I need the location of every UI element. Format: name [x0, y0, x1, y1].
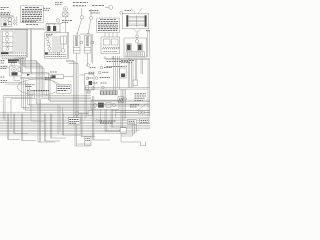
strip circle 2 — [112, 103, 115, 106]
switch circle c — [6, 43, 9, 46]
power window master box — [124, 38, 147, 57]
lock actuator box — [84, 73, 94, 90]
pointer line — [53, 81, 58, 85]
wire feed double line left — [0, 15, 14, 16]
wire from pump down — [14, 76, 20, 81]
wire pair right of M1 — [30, 29, 31, 74]
switch circle M2-a — [46, 37, 49, 40]
label near ellipse — [45, 78, 53, 80]
fuse out wire — [63, 76, 73, 78]
buzzer circle — [135, 40, 138, 43]
defogger pointer arrows — [131, 8, 142, 13]
wires from lock actuator down — [85, 90, 87, 118]
splice dark block 1 — [47, 26, 50, 31]
connector circle pair right — [138, 111, 141, 114]
right edge wire pair upper — [148, 30, 150, 57]
left drop stubs from ellipse left — [28, 91, 47, 121]
terminal rows M1 — [2, 53, 27, 59]
wires in M2 — [53, 36, 64, 52]
pump hatch — [12, 72, 18, 75]
junction circle bottom right — [120, 129, 123, 132]
defogger label — [125, 10, 132, 12]
bus double line across top of modules — [1, 28, 45, 29]
bottom right box fragment — [85, 137, 92, 146]
wires from note box2 to relay assy — [105, 33, 117, 37]
grid lines — [128, 16, 144, 25]
pump motor circle — [12, 67, 17, 72]
strip circle 1 — [93, 103, 96, 106]
dark label bar wiper — [8, 59, 19, 61]
wires inside M1 — [15, 29, 25, 52]
circuit breaker circle — [109, 6, 113, 10]
text in ellipse — [26, 85, 36, 87]
ignition switch box — [63, 12, 68, 17]
wiper switch strip — [91, 101, 119, 110]
breaker small box right — [118, 96, 124, 102]
label in M2 — [46, 34, 53, 36]
verticals right — [121, 89, 126, 142]
drops from ellipse continuing down — [37, 91, 151, 142]
splice dark block 2 — [53, 26, 56, 31]
connector circle m5 — [102, 86, 105, 89]
small circle M2 bottom — [57, 53, 59, 55]
right side labels upper — [121, 61, 134, 67]
switch circle d — [6, 47, 9, 50]
right sparse horizontals — [112, 111, 150, 113]
long horizontals right-mid — [85, 88, 150, 90]
arrow to door switch 1 — [77, 19, 82, 35]
right text block lower — [130, 94, 146, 107]
relay 1 — [104, 39, 111, 45]
bottom label box center — [68, 118, 80, 124]
verticals from wire pair — [132, 59, 143, 87]
right-mid verticals — [114, 56, 120, 91]
key cylinder circle — [63, 7, 67, 11]
connector circles bottom — [96, 120, 99, 123]
window motor 1 — [126, 44, 131, 51]
wire pair down-left of note box2 — [91, 34, 93, 64]
connector circle m4 — [92, 87, 95, 90]
label above note box2 — [89, 6, 104, 13]
resistor R2 vertical zigzag — [15, 19, 17, 26]
vertical crossings mid — [31, 114, 52, 141]
horizontal bus band 1 — [0, 113, 150, 119]
grid bus bar left — [126, 15, 128, 26]
gauge box G1 — [1, 17, 11, 26]
connector tag circle S2 — [90, 16, 93, 19]
connector circle below SW2 — [87, 64, 90, 67]
left ellipse verticals — [22, 77, 30, 110]
arrow to door switch 2 — [88, 20, 91, 35]
door lock switch right — [120, 68, 126, 78]
wire from ignition — [64, 17, 66, 33]
labels right of note box1 — [43, 8, 50, 10]
label above key cylinder — [55, 3, 63, 5]
tag leader wires — [82, 9, 91, 17]
wires left entering ellipse — [5, 83, 26, 85]
connector dots in ellipse — [27, 90, 49, 91]
relay pin circles — [104, 57, 106, 59]
label text top-left — [1, 8, 11, 15]
right verticals — [128, 58, 130, 88]
fuse box small 2 — [140, 119, 149, 124]
far-left verticals — [3, 96, 11, 129]
wire stub — [80, 74, 85, 76]
door jamb switch SW2 — [84, 36, 91, 53]
second bundle — [21, 57, 51, 91]
dark pin band — [101, 91, 118, 95]
wiper module M2 enclosure — [45, 33, 69, 59]
connector tag circle S1 — [80, 16, 83, 19]
right edge wire pair lower — [148, 60, 149, 117]
terminal label dark M1 — [1, 52, 9, 54]
corners bottom left — [8, 133, 36, 140]
small box bottom right — [120, 128, 126, 134]
bottom text right-mid — [100, 121, 116, 123]
breaker circle — [124, 98, 127, 101]
splice box row — [46, 24, 60, 32]
verticals right-center — [93, 96, 116, 140]
motor circle M2 — [61, 49, 65, 53]
connector circle left — [11, 63, 14, 66]
wires cluster2 to right — [66, 60, 78, 63]
wire stubs above resistors — [14, 16, 16, 18]
grid bus bar right — [145, 15, 147, 26]
sub box M2 — [61, 36, 67, 44]
left labels near pump — [1, 66, 8, 82]
wires below switches — [77, 53, 88, 66]
right bundle verticals — [74, 60, 79, 146]
switch circle M2-c — [48, 47, 51, 50]
switch circle M2-b — [47, 42, 50, 45]
fuse label — [50, 71, 57, 73]
contact rects G1 — [8, 18, 11, 21]
actuator bar dark — [89, 81, 92, 85]
label top-center — [73, 3, 88, 6]
enclosure inner edge — [26, 29, 28, 57]
relay 2 — [112, 39, 119, 45]
switch circle a — [5, 32, 8, 35]
window motor 2 — [137, 44, 142, 51]
ground V under grid — [133, 29, 141, 35]
door jamb switch SW1 — [73, 36, 80, 53]
resistor R1 vertical zigzag — [13, 19, 15, 26]
sub-box dividers — [3, 37, 14, 47]
pointer arrow right — [137, 104, 146, 111]
actuator circle — [86, 77, 89, 80]
steering column ellipse — [18, 79, 61, 95]
long wire pair under master box — [106, 58, 151, 59]
corner bundle right of ellipse turning right — [41, 91, 150, 102]
junction circle — [136, 35, 139, 38]
small actuator box right — [133, 80, 138, 86]
washer pump module — [10, 66, 22, 76]
note box 1 — [21, 6, 44, 23]
ground symbol — [87, 90, 90, 93]
rear window defogger grid — [123, 13, 149, 29]
left fan corners — [22, 105, 151, 111]
ignition label box — [57, 85, 72, 94]
right bottom verticals — [121, 124, 137, 136]
connector circle m3 — [95, 77, 98, 80]
label right of splice — [62, 21, 72, 23]
strip dark block — [98, 103, 104, 108]
gauge circle — [3, 18, 7, 22]
connector circle grid — [120, 11, 123, 14]
circle bottom-center — [75, 112, 79, 116]
label strip — [126, 52, 145, 57]
relay label row — [104, 50, 118, 52]
instrument module M1 enclosure — [1, 29, 28, 57]
contact hatch row — [103, 47, 120, 49]
dark element G1 — [3, 23, 6, 26]
relay assembly box — [101, 37, 120, 54]
wire — [46, 22, 62, 24]
mid-right small labels — [88, 61, 130, 83]
terminal rows M2 — [45, 52, 48, 54]
wiper feed lines — [20, 77, 64, 79]
small box bottom-center — [88, 110, 92, 115]
left mid labels — [1, 61, 6, 63]
vertical bus crossings left — [8, 114, 23, 141]
wire into pump — [0, 67, 10, 69]
connector circle m2 — [98, 71, 101, 74]
strip element — [106, 103, 111, 107]
relay sub-box M1 — [3, 31, 14, 52]
connector circle C2 — [56, 19, 59, 22]
actuator sub box — [85, 86, 89, 89]
vertical crossings center — [58, 105, 82, 137]
note box 2 — [97, 18, 120, 33]
horizontal bus band 2 — [0, 121, 150, 135]
in-line fuse — [51, 75, 63, 79]
switch circle b — [5, 38, 8, 41]
u-shape ground bottom right — [141, 142, 146, 146]
connector circle m1 — [100, 66, 103, 69]
bus corner bundle from M1 — [15, 57, 44, 91]
fuse box small 1 — [128, 120, 137, 125]
label under note box — [26, 23, 38, 25]
pointer arrowhead — [27, 74, 30, 76]
